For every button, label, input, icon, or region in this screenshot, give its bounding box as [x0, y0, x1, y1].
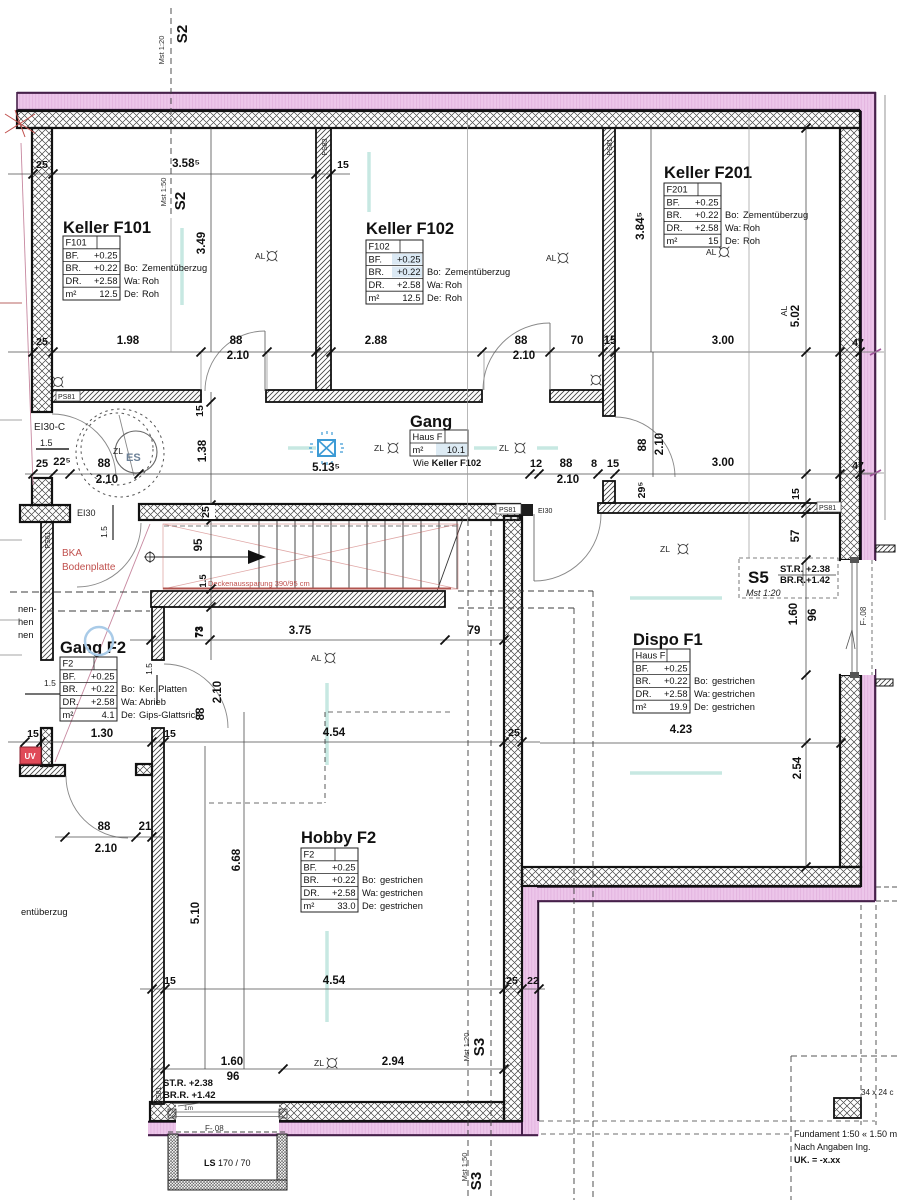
svg-text:15: 15 — [708, 236, 718, 246]
svg-text:3.49: 3.49 — [196, 232, 208, 254]
svg-text:4.1: 4.1 — [102, 710, 115, 720]
foundation detail — [834, 1098, 861, 1118]
svg-text:+0.25: +0.25 — [91, 671, 115, 681]
svg-text:Bo:: Bo: — [694, 676, 708, 686]
svg-text:Hobby F2: Hobby F2 — [301, 829, 376, 847]
svg-text:nen: nen — [18, 630, 34, 640]
door f101 — [205, 331, 265, 391]
svg-text:4.23: 4.23 — [670, 724, 692, 736]
svg-text:nen-: nen- — [18, 604, 37, 614]
wall left step band — [20, 505, 70, 522]
svg-text:BF.: BF. — [667, 197, 680, 207]
svg-text:2.10: 2.10 — [513, 350, 535, 362]
svg-text:Wa:: Wa: — [427, 280, 443, 290]
wall f101 south a — [52, 390, 201, 402]
svg-text:PS81: PS81 — [607, 138, 614, 155]
svg-text:BR.: BR. — [304, 875, 320, 885]
svg-text:1.38: 1.38 — [197, 439, 209, 462]
svg-text:25: 25 — [36, 159, 48, 171]
svg-text:Bo:: Bo: — [121, 684, 135, 694]
svg-text:25: 25 — [508, 727, 520, 739]
svg-text:F-.08: F-.08 — [205, 1124, 224, 1133]
svg-text:Bo:: Bo: — [124, 263, 138, 273]
svg-text:3.00: 3.00 — [712, 457, 734, 469]
svg-text:AL: AL — [311, 653, 322, 663]
svg-text:19.9: 19.9 — [669, 702, 687, 712]
svg-text:Bo:: Bo: — [427, 267, 441, 277]
svg-text:Ker. Platten: Ker. Platten — [139, 684, 187, 694]
svg-text:Haus F: Haus F — [636, 651, 666, 661]
vertical dim x=651 f201 — [650, 128, 652, 352]
window hobby south — [176, 1103, 279, 1133]
svg-text:LS 170 / 70: LS 170 / 70 — [204, 1158, 251, 1168]
svg-text:ES: ES — [126, 452, 141, 464]
svg-text:AL: AL — [779, 306, 789, 317]
svg-text:ZL: ZL — [113, 446, 123, 456]
section dashed pair mid — [573, 608, 575, 1200]
insulation right lower — [860, 669, 876, 902]
svg-text:Mst 1:50: Mst 1:50 — [159, 178, 168, 207]
svg-text:ZL: ZL — [499, 443, 509, 453]
svg-text:Mst 1:50: Mst 1:50 — [460, 1153, 469, 1182]
svg-text:BR.R. +1.42: BR.R. +1.42 — [163, 1090, 216, 1101]
svg-text:Wa:: Wa: — [121, 697, 137, 707]
vertical dim x=211 corridor/stair — [210, 392, 212, 660]
svg-text:88: 88 — [195, 707, 207, 720]
dim line top y=174 — [8, 173, 350, 175]
svg-text:8: 8 — [591, 458, 597, 470]
svg-text:12.5: 12.5 — [402, 293, 420, 303]
svg-text:DR.: DR. — [304, 888, 320, 898]
wall stairhall west lower — [152, 728, 164, 1104]
svg-text:96: 96 — [807, 609, 819, 622]
dim line dispo y=743 — [540, 742, 841, 744]
svg-text:3.58⁵: 3.58⁵ — [172, 158, 200, 170]
svg-text:15: 15 — [607, 458, 619, 470]
svg-text:Gips-Glattsrich: Gips-Glattsrich — [139, 710, 200, 720]
svg-text:DR.: DR. — [66, 276, 82, 286]
svg-text:2.10: 2.10 — [227, 350, 249, 362]
svg-text:29⁵: 29⁵ — [636, 482, 648, 499]
svg-text:De:: De: — [121, 710, 135, 720]
svg-text:2.94: 2.94 — [382, 1056, 405, 1068]
svg-text:S2: S2 — [172, 192, 189, 210]
svg-text:BF.: BF. — [304, 862, 317, 872]
svg-text:1.5: 1.5 — [44, 678, 56, 688]
svg-text:m²: m² — [66, 289, 77, 299]
ZL symbols — [374, 443, 398, 454]
svg-text:Wie Keller F102: Wie Keller F102 — [413, 458, 481, 468]
svg-text:ZL: ZL — [374, 443, 384, 453]
wall corridor south-east PS81 — [598, 503, 838, 513]
svg-text:33.0: 33.0 — [337, 901, 355, 911]
svg-text:3.84⁵: 3.84⁵ — [635, 212, 647, 240]
svg-text:88: 88 — [98, 821, 111, 833]
svg-text:57: 57 — [790, 530, 802, 543]
svg-text:1.60: 1.60 — [788, 603, 800, 625]
svg-text:UV: UV — [24, 752, 36, 761]
section S2 line — [170, 8, 172, 218]
svg-text:15: 15 — [604, 335, 617, 347]
svg-text:Bo:: Bo: — [362, 875, 376, 885]
svg-text:+0.22: +0.22 — [664, 676, 688, 686]
wall hobby right — [504, 516, 522, 1121]
svg-text:BR.: BR. — [667, 210, 683, 220]
svg-text:2.10: 2.10 — [212, 681, 224, 703]
svg-text:UK. = -x.xx: UK. = -x.xx — [794, 1155, 840, 1165]
svg-text:+2.58: +2.58 — [664, 689, 688, 699]
svg-text:15: 15 — [194, 405, 206, 417]
svg-text:47: 47 — [852, 460, 864, 472]
svg-text:88: 88 — [230, 335, 243, 347]
section S5 marker — [739, 558, 838, 598]
wall labels — [56, 391, 841, 515]
vent symbols — [54, 378, 63, 387]
svg-text:DR.: DR. — [369, 280, 385, 290]
wall right lower — [840, 675, 861, 867]
section S3 lines — [467, 520, 469, 1200]
svg-text:Keller F101: Keller F101 — [63, 219, 151, 237]
svg-text:De:: De: — [427, 293, 441, 303]
svg-text:1.60: 1.60 — [221, 1056, 243, 1068]
svg-text:De:: De: — [362, 901, 376, 911]
svg-text:2.10: 2.10 — [557, 474, 579, 486]
svg-text:Zementüberzug: Zementüberzug — [142, 263, 207, 273]
dashed lines bottom right — [539, 1120, 875, 1122]
svg-text:6.68: 6.68 — [231, 848, 243, 871]
svg-text:Wa:: Wa: — [725, 223, 741, 233]
svg-text:15: 15 — [164, 975, 176, 987]
svg-text:Roh: Roh — [445, 280, 462, 290]
wall dispo bottom — [522, 867, 861, 886]
door f102 — [483, 323, 550, 390]
svg-text:+2.38: +2.38 — [806, 564, 830, 575]
red deckenaussparung box — [163, 524, 458, 589]
svg-text:1.5: 1.5 — [198, 574, 209, 588]
svg-text:Deckenaussparung 390/95 cm: Deckenaussparung 390/95 cm — [208, 579, 310, 588]
svg-text:+2.58: +2.58 — [397, 280, 421, 290]
dim line y=474 — [25, 473, 877, 475]
svg-text:ST.R.: ST.R. — [780, 564, 803, 575]
svg-text:DR.: DR. — [63, 697, 79, 707]
dashed lines left — [10, 591, 150, 593]
insulation top band — [17, 92, 876, 111]
vertical dims hobby — [204, 746, 206, 1069]
dim line y=640 — [130, 639, 504, 641]
svg-text:12: 12 — [530, 458, 542, 470]
svg-text:Bodenplatte: Bodenplatte — [62, 562, 116, 573]
svg-text:22⁵: 22⁵ — [53, 456, 70, 468]
svg-text:Roh: Roh — [142, 276, 159, 286]
svg-text:BF.: BF. — [636, 663, 649, 673]
svg-text:S5: S5 — [748, 568, 769, 587]
wall f102 south b — [550, 390, 603, 402]
svg-text:Wa:: Wa: — [124, 276, 140, 286]
svg-text:De:: De: — [694, 702, 708, 712]
svg-text:ST.R. +2.38: ST.R. +2.38 — [163, 1078, 213, 1089]
insulation hobby bottom — [148, 1121, 539, 1136]
wall hobby bottom — [150, 1102, 504, 1121]
door jamb guides — [200, 353, 202, 390]
svg-text:1.5: 1.5 — [99, 526, 109, 538]
svg-text:12.5: 12.5 — [99, 289, 117, 299]
svg-text:PS61: PS61 — [45, 531, 52, 548]
svg-text:BF.: BF. — [369, 254, 382, 264]
svg-text:+1.42: +1.42 — [806, 575, 830, 586]
svg-text:Roh: Roh — [445, 293, 462, 303]
svg-text:Haus F: Haus F — [413, 432, 443, 442]
door stairhall west — [77, 523, 141, 587]
wall f101-f102 divider PS83 — [316, 128, 331, 390]
AL symbols — [255, 251, 277, 262]
svg-text:5.02: 5.02 — [790, 305, 802, 327]
door gangf2 south — [66, 776, 128, 838]
door gangf2 east — [164, 664, 228, 728]
svg-text:PS81: PS81 — [819, 505, 836, 512]
svg-text:5.10: 5.10 — [190, 902, 202, 924]
svg-text:+0.22: +0.22 — [332, 875, 356, 885]
cut-off texts left edge — [18, 604, 68, 917]
wall left — [32, 128, 52, 412]
svg-text:95: 95 — [193, 538, 205, 551]
svg-text:Fundament 1:50 « 1.50 m,: Fundament 1:50 « 1.50 m, — [794, 1129, 897, 1139]
svg-text:EI30-C: EI30-C — [34, 422, 65, 433]
svg-text:2.10: 2.10 — [96, 474, 118, 486]
svg-text:22: 22 — [527, 975, 539, 987]
svg-text:96: 96 — [227, 1071, 240, 1083]
dim line y=989 — [140, 988, 545, 990]
svg-text:BKA: BKA — [62, 548, 82, 559]
svg-text:AL: AL — [706, 247, 717, 257]
svg-text:Keller F201: Keller F201 — [664, 164, 752, 182]
svg-text:Mst 1:20: Mst 1:20 — [462, 1033, 471, 1062]
dim line y=1069 — [150, 1068, 504, 1070]
svg-text:De:: De: — [124, 289, 138, 299]
svg-text:Zementüberzug: Zementüberzug — [743, 210, 808, 220]
svg-text:2.88: 2.88 — [365, 335, 388, 347]
svg-text:3.00: 3.00 — [712, 335, 734, 347]
svg-text:15: 15 — [337, 159, 349, 171]
wall f102-f201 divider — [603, 128, 615, 416]
svg-text:Keller F102: Keller F102 — [366, 220, 454, 238]
svg-text:m²: m² — [636, 702, 647, 712]
wall stub corridor — [603, 481, 615, 503]
svg-text:1m: 1m — [184, 1105, 193, 1112]
svg-text:+2.58: +2.58 — [94, 276, 118, 286]
svg-text:PS81: PS81 — [58, 394, 75, 401]
stairs — [258, 521, 260, 589]
svg-text:34 x 24 c: 34 x 24 c — [861, 1088, 893, 1097]
svg-text:gestrichen: gestrichen — [380, 875, 423, 885]
svg-text:73: 73 — [194, 626, 206, 638]
svg-text:1.30: 1.30 — [91, 728, 113, 740]
svg-text:PS81: PS81 — [156, 1086, 163, 1103]
svg-text:Mst 1:20: Mst 1:20 — [746, 588, 781, 598]
svg-text:15: 15 — [164, 728, 176, 740]
svg-text:entüberzug: entüberzug — [21, 907, 68, 917]
svg-text:15: 15 — [27, 728, 39, 740]
stair walk line — [150, 556, 248, 558]
svg-text:F-.08: F-.08 — [859, 606, 868, 625]
door f201 — [615, 417, 675, 477]
svg-text:2.10: 2.10 — [654, 433, 666, 455]
svg-text:+0.25: +0.25 — [664, 663, 688, 673]
wall stair south — [151, 591, 445, 607]
svg-text:88: 88 — [560, 458, 573, 470]
vertical dim x=653 door f201 — [652, 352, 654, 477]
insulation dispo bottom — [537, 886, 876, 902]
dim line y=352 — [8, 351, 877, 353]
svg-text:F2: F2 — [63, 659, 74, 669]
highlight marks — [180, 228, 184, 305]
svg-text:4.54: 4.54 — [323, 975, 346, 987]
svg-text:EI30: EI30 — [538, 508, 553, 515]
svg-text:m²: m² — [667, 236, 678, 246]
svg-text:S3: S3 — [471, 1038, 488, 1056]
svg-text:1.98: 1.98 — [117, 335, 140, 347]
wall top band — [17, 111, 860, 128]
svg-text:2.54: 2.54 — [792, 756, 804, 779]
svg-text:EI30: EI30 — [77, 508, 96, 518]
wall right upper — [840, 128, 860, 560]
svg-text:Gang: Gang — [410, 413, 452, 431]
insulation right upper — [860, 104, 876, 561]
door corridor EI30 — [534, 514, 601, 581]
svg-text:Dispo F1: Dispo F1 — [633, 631, 703, 649]
svg-text:Wa:: Wa: — [694, 689, 710, 699]
svg-text:DR.: DR. — [636, 689, 652, 699]
wall f101/f102 south — [266, 390, 482, 402]
svg-text:BR.: BR. — [66, 263, 82, 273]
svg-text:70: 70 — [571, 335, 584, 347]
door EI30-C left — [52, 414, 116, 478]
svg-text:+0.25: +0.25 — [695, 197, 719, 207]
wall PS61 left — [41, 522, 53, 660]
svg-text:DR.: DR. — [667, 223, 683, 233]
svg-text:AL: AL — [546, 253, 557, 263]
window F.08 east — [841, 560, 875, 675]
svg-text:+0.25: +0.25 — [397, 254, 421, 264]
svg-text:S3: S3 — [468, 1172, 485, 1190]
svg-text:Roh: Roh — [743, 236, 760, 246]
svg-text:5.13⁵: 5.13⁵ — [312, 462, 340, 474]
svg-text:Nach Angaben Ing.: Nach Angaben Ing. — [794, 1142, 871, 1152]
vertical dim right edge x=885 — [884, 95, 886, 520]
svg-text:gestrichen: gestrichen — [380, 888, 423, 898]
svg-text:+0.22: +0.22 — [91, 684, 115, 694]
svg-text:25: 25 — [36, 336, 48, 348]
svg-text:BR.: BR. — [636, 676, 652, 686]
svg-text:F201: F201 — [667, 185, 688, 195]
svg-text:1.5: 1.5 — [40, 438, 53, 448]
section thin extension lines — [467, 114, 469, 521]
svg-text:gestrichen: gestrichen — [712, 702, 755, 712]
svg-text:88: 88 — [637, 438, 649, 451]
wall gangf2 left block — [41, 728, 52, 766]
svg-text:BR.R.: BR.R. — [780, 575, 806, 586]
svg-text:88: 88 — [98, 458, 111, 470]
svg-text:m²: m² — [304, 901, 315, 911]
UV box — [20, 747, 41, 764]
corridor door post — [520, 504, 533, 516]
svg-text:47: 47 — [852, 337, 864, 349]
svg-text:F101: F101 — [66, 238, 87, 248]
svg-text:F2: F2 — [304, 850, 315, 860]
svg-text:4.54: 4.54 — [323, 727, 346, 739]
sill strip upper — [876, 545, 895, 552]
dim line y=837 gangf2 — [55, 836, 164, 838]
svg-text:BF.: BF. — [66, 250, 79, 260]
svg-text:De:: De: — [725, 236, 739, 246]
svg-text:3.75: 3.75 — [289, 625, 312, 637]
svg-text:m²: m² — [413, 445, 424, 455]
svg-text:+2.58: +2.58 — [332, 888, 356, 898]
svg-text:+2.58: +2.58 — [91, 697, 115, 707]
svg-text:gestrichen: gestrichen — [712, 676, 755, 686]
wall left block — [32, 478, 52, 505]
svg-text:+0.22: +0.22 — [94, 263, 118, 273]
svg-text:PS83: PS83 — [322, 138, 329, 155]
svg-text:21: 21 — [139, 821, 152, 833]
dashed outline hobby — [328, 711, 451, 713]
blue vent symbol — [309, 431, 344, 465]
wall gangf2 right block — [136, 764, 152, 775]
vertical dim x=211 f101 — [210, 128, 212, 352]
svg-text:Roh: Roh — [142, 289, 159, 299]
svg-text:AL: AL — [255, 251, 266, 261]
vertical dim x=806 right — [805, 128, 807, 867]
svg-text:Mst 1:20: Mst 1:20 — [157, 36, 166, 65]
wall gangf2 band — [20, 765, 65, 776]
svg-text:25: 25 — [200, 506, 212, 518]
svg-text:hen: hen — [18, 617, 34, 627]
svg-text:Bo:: Bo: — [725, 210, 739, 220]
svg-text:Wa:: Wa: — [362, 888, 378, 898]
svg-text:Roh: Roh — [743, 223, 760, 233]
svg-text:gestrichen: gestrichen — [712, 689, 755, 699]
sill strip lower — [876, 679, 893, 686]
ES sump circles — [76, 409, 164, 497]
svg-text:F102: F102 — [369, 242, 390, 252]
svg-text:+2.58: +2.58 — [695, 223, 719, 233]
svg-text:25: 25 — [36, 458, 48, 470]
wall stairhall west upper — [152, 607, 164, 660]
dim line y=742 — [8, 741, 540, 743]
svg-text:+0.25: +0.25 — [94, 250, 118, 260]
svg-text:BF.: BF. — [63, 671, 76, 681]
svg-text:ZL: ZL — [660, 544, 670, 554]
svg-text:+0.22: +0.22 — [397, 267, 421, 277]
light pit LS — [168, 1134, 287, 1190]
wall corridor south-west — [139, 504, 520, 520]
svg-text:PS81: PS81 — [499, 507, 516, 514]
svg-text:Zementüberzug: Zementüberzug — [445, 267, 510, 277]
svg-text:m²: m² — [369, 293, 380, 303]
svg-text:15: 15 — [790, 488, 802, 500]
svg-text:+0.22: +0.22 — [695, 210, 719, 220]
svg-text:BR.: BR. — [63, 684, 79, 694]
svg-text:88: 88 — [515, 335, 528, 347]
svg-text:ZL: ZL — [314, 1058, 324, 1068]
svg-text:79: 79 — [468, 625, 481, 637]
svg-text:10.1: 10.1 — [447, 445, 465, 455]
gangf2 blue circle — [85, 627, 113, 655]
svg-text:25: 25 — [506, 975, 518, 987]
svg-text:gestrichen: gestrichen — [380, 901, 423, 911]
insulation step vertical — [521, 886, 539, 1136]
svg-text:2.10: 2.10 — [95, 843, 117, 855]
red markup lines — [55, 524, 150, 762]
